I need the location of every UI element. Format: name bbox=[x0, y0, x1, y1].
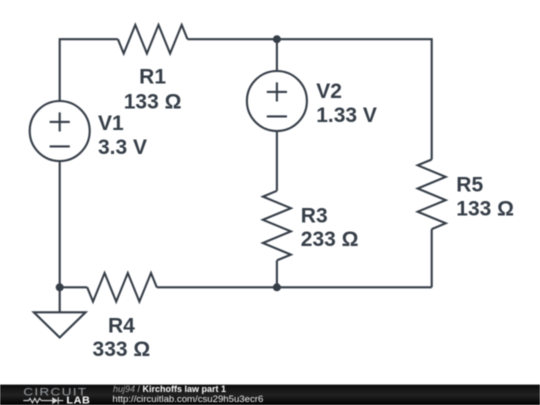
svg-text:R1: R1 bbox=[139, 66, 166, 89]
svg-text:http://circuitlab.com/csu29h5u: http://circuitlab.com/csu29h5u3ecr6 bbox=[112, 394, 263, 405]
svg-text:LAB: LAB bbox=[66, 395, 90, 405]
svg-text:huj94 / Kirchoffs law part 1: huj94 / Kirchoffs law part 1 bbox=[113, 384, 226, 394]
svg-text:R5: R5 bbox=[456, 174, 483, 197]
svg-text:V2: V2 bbox=[316, 80, 342, 103]
svg-text:R4: R4 bbox=[108, 315, 135, 338]
svg-text:R3: R3 bbox=[301, 204, 328, 227]
svg-text:133 Ω: 133 Ω bbox=[456, 197, 514, 220]
svg-text:133 Ω: 133 Ω bbox=[124, 91, 182, 114]
svg-text:1.33 V: 1.33 V bbox=[316, 104, 377, 127]
svg-text:233 Ω: 233 Ω bbox=[301, 228, 359, 251]
svg-text:3.3 V: 3.3 V bbox=[98, 136, 147, 159]
svg-text:333 Ω: 333 Ω bbox=[93, 338, 151, 361]
svg-text:V1: V1 bbox=[98, 112, 124, 135]
